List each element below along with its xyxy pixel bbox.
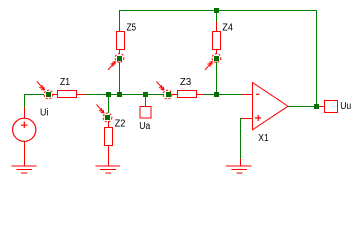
wire input left segment [24,94,44,96]
svg-text:Z2: Z2 [115,119,126,130]
node Z4 bottom [205,54,221,70]
wire Z4 column upper [216,12,218,22]
resistor Z2 [105,121,113,166]
voltage source Ui [13,108,36,167]
wire Z5 column lower [119,62,121,97]
wire op-amp output [288,106,314,108]
ground at op-amp plus input [226,159,252,174]
svg-text:Z1: Z1 [60,77,70,88]
junction Ua branch [143,92,148,97]
svg-text:Ui: Ui [40,107,48,118]
wire mid segment Z1 to summing node [85,94,164,96]
wire source vertical [24,94,26,108]
wire top rail [119,10,317,12]
junction output node [314,104,319,109]
wire Z2 column [108,96,110,113]
wire Z4 column lower [216,62,218,97]
junction Z5 branch [117,92,122,97]
node Z5 bottom [108,54,124,70]
wire Z3 to op-amp [204,94,242,96]
junction Z4 branch [214,92,219,97]
svg-text:Z4: Z4 [222,23,233,34]
svg-text:Uu: Uu [340,101,351,112]
ground below Z2 [96,166,121,173]
svg-text:Z3: Z3 [180,77,192,88]
op-amp X1 [241,83,288,130]
junction on top rail [214,8,219,13]
node Z2 top [97,105,112,122]
wire op-amp plus input vertical [240,118,242,159]
wire right vertical (output to feedback rail) [316,10,318,106]
resistor Z3 [172,91,204,98]
resistor Z1 [52,91,85,98]
node summing point [157,82,172,99]
output port Uu [319,101,338,113]
node Ui (pin marker) [37,82,53,99]
resistor Z5 [117,22,125,55]
ground below source [12,166,37,173]
voltage probe Ua [140,97,151,118]
svg-text:Z5: Z5 [127,23,137,34]
resistor Z4 [213,22,221,55]
svg-text:Ua: Ua [139,121,150,132]
junction Z2 branch [106,92,111,97]
svg-text:X1: X1 [258,133,269,144]
wire Z5 column upper [119,10,121,22]
